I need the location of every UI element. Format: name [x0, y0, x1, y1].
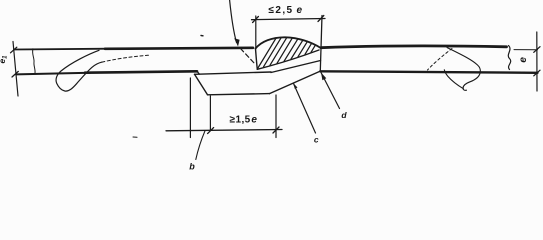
svg-text:e1: e1	[0, 55, 9, 64]
svg-text:d: d	[341, 110, 347, 120]
svg-text:e: e	[518, 57, 529, 63]
svg-text:≥1,5e: ≥1,5e	[230, 115, 258, 126]
svg-text:c: c	[314, 134, 319, 144]
svg-text:≤2,5e: ≤2,5e	[269, 5, 304, 16]
svg-text:b: b	[189, 162, 195, 172]
